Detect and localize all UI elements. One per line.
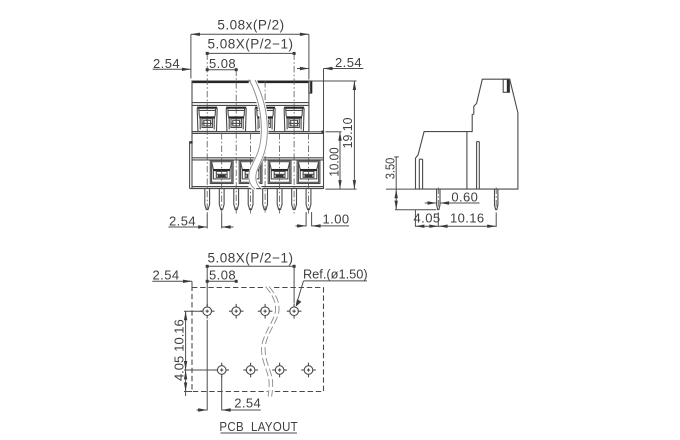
front view: top row screw terminals: [197, 107, 217, 109]
side view: body profile: [416, 79, 518, 189]
dim 5.08x(P/2): overall width, top: [190, 34, 192, 78]
side view: pin A: [437, 189, 440, 210]
hole bottom row x=279.6: [275, 366, 284, 375]
pcb layout: body outline dashed: [192, 288, 324, 392]
svg-text:PCB LAYOUT: PCB LAYOUT: [219, 419, 298, 434]
front view: centerlines of top-row poles: [206, 53, 208, 213]
hole bottom row x=221.7: [217, 366, 226, 375]
extension line bottom right: [326, 188, 357, 190]
dim 2.54 bottom-left: pin pitch: [206, 214, 208, 229]
hole bottom row x=250.6: [246, 366, 255, 375]
hole top row x=207.2: [203, 307, 212, 316]
hole top row x=236.2: [232, 307, 241, 316]
svg-text:5.08x(P/2): 5.08x(P/2): [217, 18, 284, 33]
dim 5.08X(P/2-1): centers span: [207, 52, 294, 54]
dim 5.08: pitch: [207, 69, 236, 71]
svg-text:1.00: 1.00: [323, 211, 350, 226]
hole top row x=294.1: [290, 307, 299, 316]
dim 5.08X(P/2-1) pcb: [206, 266, 208, 307]
dim 10.00: lower body height: [326, 131, 342, 133]
hole bottom row x=308.5: [304, 366, 313, 375]
front view: centerlines of bottom-row poles: [221, 133, 223, 214]
dim 3.50: pin length, side left: [386, 188, 416, 190]
dim 2.54 pcb top-left: [152, 280, 192, 282]
dim 5.08 pcb: [207, 280, 236, 282]
svg-text:0.60: 0.60: [451, 189, 478, 204]
svg-text:10.16: 10.16: [171, 319, 186, 352]
side view: inner vertical boundary: [466, 132, 468, 190]
dim 2.54 pcb bottom: [206, 320, 208, 411]
dim 2.54 top-right: [297, 68, 309, 70]
front view: top-right tab: [309, 81, 312, 93]
pcb layout: break wavy lines: [263, 287, 277, 397]
dim 1.00: pin width: [305, 212, 307, 226]
side view: top slot: [503, 79, 509, 92]
svg-text:2.54: 2.54: [169, 213, 196, 228]
svg-text:5.08: 5.08: [209, 268, 236, 283]
svg-text:2.54: 2.54: [153, 268, 180, 283]
front view: break (continuation) wavy lines: [252, 80, 264, 188]
front view: upper housing body: [192, 81, 309, 132]
front view: solder pins: [205, 189, 210, 210]
svg-text:19.10: 19.10: [341, 118, 355, 149]
svg-text:10.00: 10.00: [327, 147, 342, 176]
hole top row x=265.1: [261, 307, 270, 316]
svg-text:4.05: 4.05: [171, 356, 186, 381]
svg-text:2.54: 2.54: [335, 55, 362, 70]
front view: lower housing body: [192, 132, 324, 189]
dim 4.05 and 10.16, side bottom: [414, 210, 416, 227]
front view: bottom row screw terminals: [210, 160, 233, 183]
dim 19.10: overall height, right: [312, 80, 357, 82]
front view: bottom edge of body: [192, 186, 324, 188]
svg-text:2.54: 2.54: [234, 396, 261, 411]
dim 0.60: pin thickness: [425, 202, 437, 204]
front view: left flange: [189, 143, 191, 189]
dim 4.05 pcb: [184, 370, 187, 379]
svg-text:5.08X(P/2−1): 5.08X(P/2−1): [208, 251, 294, 266]
side view: pin B: [495, 189, 498, 210]
side view: inner slot left: [418, 159, 420, 189]
svg-text:5.08X(P/2−1): 5.08X(P/2−1): [208, 37, 294, 52]
dim 2.54 top-left: [153, 68, 191, 70]
svg-text:4.05: 4.05: [414, 211, 441, 226]
side view: inner slot right: [476, 142, 478, 190]
svg-text:10.16: 10.16: [450, 211, 485, 226]
svg-text:Ref.(ø1.50): Ref.(ø1.50): [303, 267, 368, 282]
svg-text:2.54: 2.54: [153, 56, 180, 71]
svg-text:3.50: 3.50: [383, 157, 398, 179]
svg-text:5.08: 5.08: [209, 56, 236, 71]
dim 10.16 pcb: [184, 310, 203, 312]
